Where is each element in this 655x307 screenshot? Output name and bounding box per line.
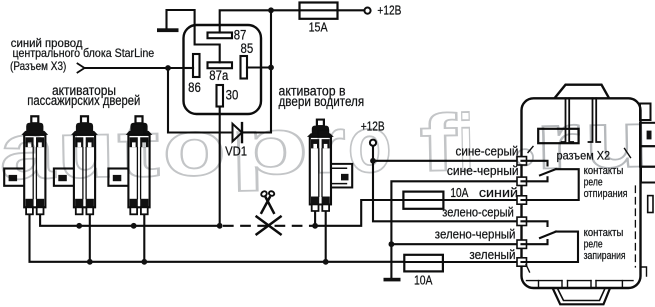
svg-text:зелено-серый: зелено-серый: [442, 205, 514, 220]
svg-text:10А: 10А: [414, 273, 433, 288]
svg-text:r: r: [312, 100, 347, 190]
svg-text:o: o: [162, 103, 227, 193]
svg-text:синий: синий: [479, 185, 518, 200]
svg-text:o: o: [347, 99, 393, 189]
svg-text:87а: 87а: [209, 68, 228, 83]
svg-text:u: u: [57, 105, 116, 195]
svg-text:реле: реле: [584, 239, 603, 251]
svg-text:(Разъем Х3): (Разъем Х3): [10, 59, 66, 73]
svg-text:30: 30: [226, 88, 239, 103]
svg-text:86: 86: [188, 80, 201, 95]
svg-text:15А: 15А: [309, 19, 328, 34]
svg-text:a: a: [0, 106, 56, 196]
svg-text:отпирания: отпирания: [584, 188, 628, 200]
svg-text:85: 85: [241, 41, 254, 56]
svg-text:r: r: [535, 96, 582, 186]
svg-text:p: p: [229, 101, 310, 192]
svg-text:контакты: контакты: [584, 227, 624, 239]
svg-text:t: t: [117, 104, 161, 194]
svg-text:запирания: запирания: [584, 250, 626, 262]
svg-text:сине-черный: сине-черный: [447, 163, 519, 178]
svg-text:зеленый: зеленый: [469, 247, 515, 262]
svg-text:i: i: [458, 98, 475, 187]
svg-text:f: f: [419, 98, 458, 188]
svg-text:u: u: [584, 94, 650, 184]
svg-text:+12В: +12В: [377, 2, 401, 17]
svg-text:зелено-черный: зелено-черный: [435, 226, 516, 241]
